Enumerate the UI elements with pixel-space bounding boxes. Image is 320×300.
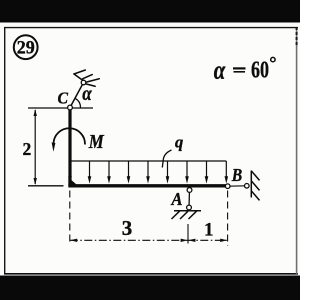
horizontal beam <box>68 184 225 187</box>
pin A on beam <box>187 188 192 193</box>
svg-text:q: q <box>175 133 183 152</box>
extension line at A <box>187 224 189 244</box>
frame top border <box>4 27 298 29</box>
pin at C <box>68 105 73 110</box>
wall line at B <box>250 171 252 198</box>
svg-text:60: 60 <box>251 57 269 83</box>
svg-text:2: 2 <box>23 139 32 159</box>
bottom dimension line <box>70 239 228 241</box>
frame left border <box>4 27 6 274</box>
wall hatching at rod anchor <box>74 70 99 86</box>
reference line left of beam corner <box>28 185 64 187</box>
svg-text:3: 3 <box>122 216 133 240</box>
bottom black bar <box>0 276 300 300</box>
dimension 2 line <box>34 110 36 184</box>
svg-text:α: α <box>82 81 92 105</box>
ground line at A <box>174 210 201 212</box>
svg-text:29: 29 <box>17 38 35 58</box>
leader from q to load line <box>162 150 171 168</box>
angle alpha arc at C <box>75 98 80 107</box>
extension line below B <box>227 191 229 247</box>
dimension arrows <box>70 239 227 242</box>
moment M arc with arrowhead <box>54 128 86 144</box>
vertical beam segment <box>68 109 71 186</box>
svg-text:B: B <box>231 165 242 185</box>
pin at rod anchor <box>81 80 86 85</box>
wall hatching at B <box>251 171 259 201</box>
ground hatching at A <box>172 211 197 219</box>
svg-text:A: A <box>171 189 183 209</box>
corner fillet <box>68 178 80 188</box>
frame bottom border <box>4 273 298 275</box>
support B link rod <box>228 185 247 187</box>
svg-text:C: C <box>58 88 69 107</box>
distributed load line <box>70 160 226 162</box>
top black bar <box>0 0 300 23</box>
pin B wall side <box>245 184 250 189</box>
svg-text:M: M <box>88 132 104 153</box>
horizontal reference line through C <box>28 107 93 109</box>
svg-text:1: 1 <box>204 219 214 240</box>
rod from C to wall pin <box>70 83 84 108</box>
pin A lower <box>187 205 192 210</box>
svg-text:α: α <box>214 56 226 85</box>
support A link <box>188 190 191 208</box>
frame right border dark top segment <box>296 27 298 46</box>
distributed load arrowheads <box>68 176 228 183</box>
pin B <box>225 184 230 189</box>
problem number circle <box>14 35 38 59</box>
distributed load arrows <box>70 161 226 178</box>
frame right border <box>296 27 298 274</box>
extension line below corner <box>69 191 71 244</box>
